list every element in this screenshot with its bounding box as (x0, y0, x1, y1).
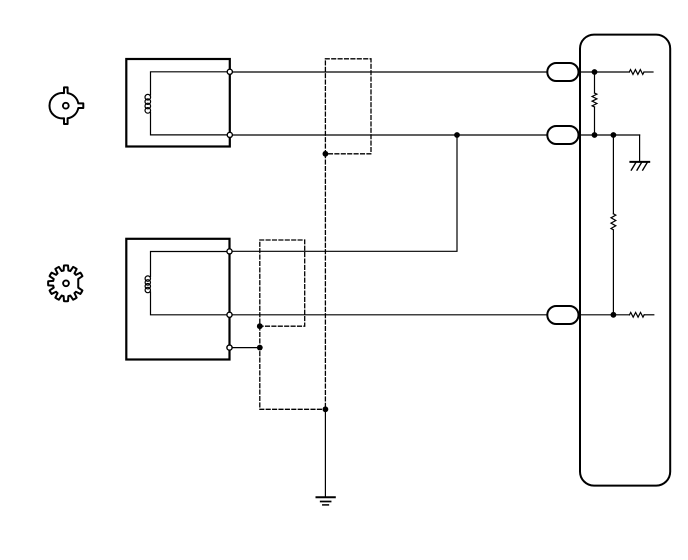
crankshaft sensor housing box (126, 239, 229, 360)
junction node pin1/R1/R2 (592, 69, 598, 75)
resistor R3 (vertical to pin3 net) (611, 214, 616, 230)
shield (dashed) around sensor2 pair (260, 240, 305, 326)
wire: sensor2 top terminal up to pin2 net (230, 135, 458, 251)
wire: sensor2 signal to ECU pin3 (230, 314, 630, 316)
wire: sensor1 signal (top) to ECU pin1 (230, 71, 630, 73)
junction node wireA/pin2 net (454, 132, 460, 138)
inductor coil L2 (145, 276, 150, 281)
inductor coil L1 (145, 94, 151, 100)
chassis ground (ECU internal) (630, 162, 649, 170)
junction node pin2/chassis (611, 132, 617, 138)
wire: ECU internal pin1 to pin2 via R2 (594, 72, 596, 135)
camshaft sensor housing box (126, 59, 230, 147)
shield drain dashed line from bottom shield (260, 326, 326, 409)
crankshaft tone wheel (gear) icon (48, 265, 82, 301)
terminal at 229.5,314.8 (227, 312, 232, 317)
terminal at 229.5,251.4 (227, 249, 232, 254)
resistor R1 (pull-up, horizontal top) (629, 70, 644, 75)
resistor R4 (horizontal bottom) (630, 312, 645, 317)
connector pin 2 (oval) (547, 126, 578, 144)
junction node pin2/R2 (592, 132, 598, 138)
connector pin 1 (oval) (547, 63, 578, 81)
junction node shield2 drain (257, 345, 263, 351)
wire: chassis-ground branch (639, 135, 641, 161)
ECU module box (580, 35, 670, 486)
camshaft position sensor icon (49, 87, 83, 124)
junction node shield2 corner (257, 323, 263, 329)
terminal at 229.8,71.8 (227, 69, 232, 74)
terminal at 229.8,134.9 (227, 132, 232, 137)
junction node pin3/R3/R4 (611, 312, 617, 318)
junction node shield1 drain (323, 151, 329, 157)
wire: ECU internal vertical to pin3 via R3 (612, 135, 614, 315)
terminal at 229.5,347.6 (227, 345, 232, 350)
wire: shield drain to earth ground (324, 409, 326, 497)
wire: sensor2 shield terminal stub (230, 347, 260, 349)
resistor R2 (vertical between pin1 and pin2) (592, 93, 597, 107)
earth ground symbol (317, 497, 335, 505)
sensor1 internal wiring loop (151, 72, 230, 135)
sensor2 internal wiring loop (151, 252, 230, 315)
shield drain dashed line from top shield (324, 154, 326, 409)
wire: sensor1 return to ECU pin2 (230, 134, 640, 136)
junction node drain/ground (323, 406, 329, 412)
shield (dashed) around sensor1 pair (325, 59, 371, 154)
connector pin 3 (oval) (547, 306, 578, 324)
